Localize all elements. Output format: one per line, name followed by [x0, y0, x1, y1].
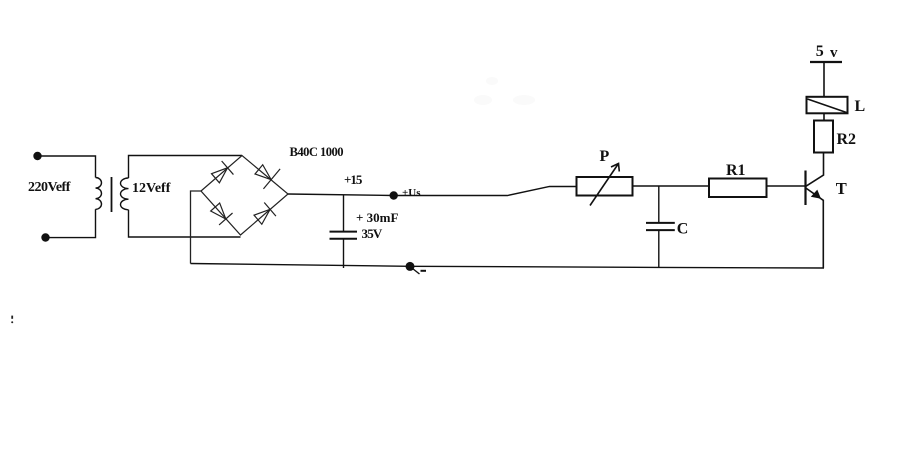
wire positive rail — [288, 187, 577, 196]
label minus — [421, 270, 427, 272]
transistor collector — [806, 153, 824, 187]
transistor emitter — [806, 188, 824, 268]
capacitor C lead top — [658, 186, 660, 223]
svg-text:P: P — [600, 148, 610, 165]
transformer secondary winding — [121, 178, 129, 210]
diode D1 (top-left edge) — [210, 161, 234, 185]
wire secondary top — [129, 156, 243, 179]
node +Us dot — [390, 191, 398, 199]
svg-text:C: C — [677, 221, 689, 238]
svg-text:+ 30mF: + 30mF — [356, 210, 398, 225]
diode D2 (top-right edge) — [251, 159, 280, 189]
capacitor 30mF lead top — [343, 195, 345, 231]
wire secondary bottom — [129, 210, 241, 237]
lamp L box — [807, 97, 848, 114]
node minus dot — [406, 262, 415, 271]
5v supply bar — [810, 61, 842, 63]
potentiometer P arrow — [590, 164, 619, 206]
wire 5v to L — [823, 62, 825, 97]
transformer core — [111, 177, 113, 212]
terminal dot bottom (220V input) — [41, 233, 49, 241]
svg-text:220Veff: 220Veff — [28, 180, 71, 195]
wire bottom rail — [191, 264, 825, 269]
svg-text:v: v — [830, 45, 838, 61]
svg-text:R2: R2 — [837, 131, 857, 148]
wire pot to R1 — [633, 185, 710, 187]
capacitor C plates — [646, 222, 675, 224]
diode D4 (bottom-right edge) — [252, 202, 276, 226]
resistor R1 box — [709, 179, 767, 198]
potentiometer P box — [577, 177, 633, 196]
svg-text:35V: 35V — [362, 226, 383, 241]
svg-text:5: 5 — [816, 43, 824, 60]
terminal dot top (220V input) — [33, 152, 41, 160]
smudge artifacts — [474, 77, 535, 105]
wire L to R2 — [823, 113, 825, 120]
bridge rectifier diamond — [201, 156, 288, 236]
wire primary bottom — [46, 209, 96, 237]
capacitor C lead bottom — [658, 230, 660, 267]
transistor T — [804, 171, 806, 206]
capacitor 30mF lead bottom — [343, 239, 345, 268]
svg-text:12Veff: 12Veff — [132, 181, 171, 196]
svg-text:T: T — [836, 179, 847, 198]
stray ink mark left edge — [11, 316, 13, 319]
svg-text:+Us: +Us — [402, 187, 421, 199]
wire bridge minus output — [191, 191, 202, 264]
wire R1 to base — [767, 185, 806, 187]
svg-text:L: L — [855, 98, 866, 115]
diode D3 (bottom-left edge) — [208, 201, 232, 225]
wire primary top — [38, 156, 96, 178]
svg-text:+15: +15 — [344, 172, 363, 187]
transformer primary winding — [96, 178, 102, 210]
resistor R2 box — [814, 121, 833, 153]
svg-text:B40C 1000: B40C 1000 — [290, 145, 344, 159]
capacitor 30mF plates — [330, 231, 358, 233]
transistor emitter arrow — [811, 190, 821, 199]
svg-text:R1: R1 — [726, 162, 746, 179]
